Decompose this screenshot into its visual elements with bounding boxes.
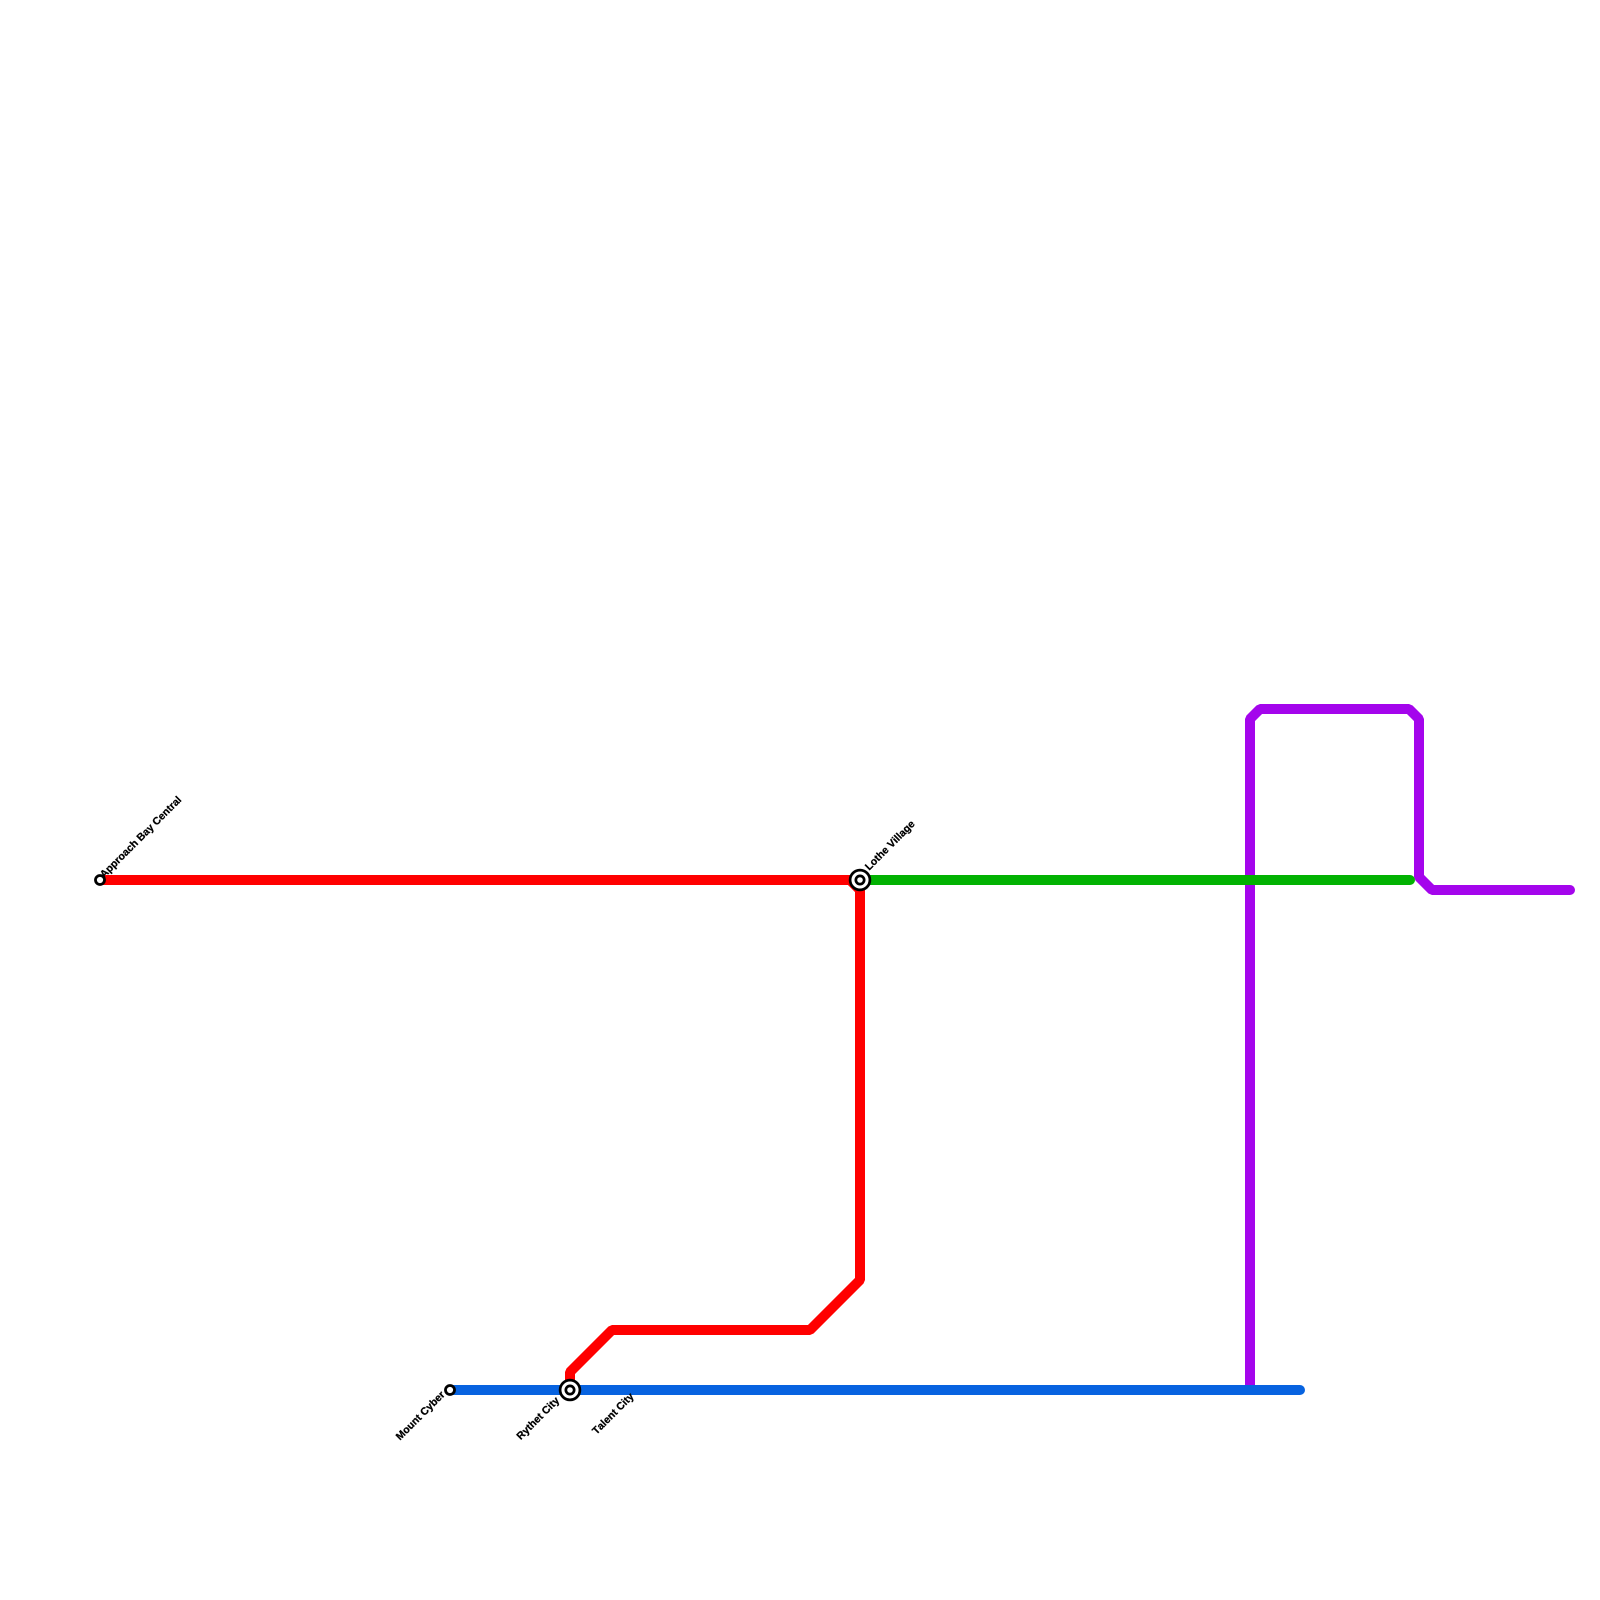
station Rythet City (interchange) inner ring (566, 1386, 574, 1394)
blue line (450, 1385, 1300, 1395)
label Mount Cyber (395, 1390, 447, 1442)
station Lothe Village (interchange) outer ring (850, 870, 870, 890)
label Approach Bay Central (99, 796, 183, 880)
green line (862, 875, 1410, 885)
station Mount Cyber (446, 1386, 455, 1395)
label Talent City (591, 1392, 636, 1437)
purple line: upper loop and right branch (1250, 709, 1570, 890)
purple line: segment below green line down to blue line (1245, 879, 1255, 1390)
label Rythet City (516, 1396, 562, 1442)
station Lothe Village (interchange) inner ring (856, 876, 864, 884)
station Approach Bay Central (96, 876, 105, 885)
red line (100, 880, 860, 1390)
label Lothe Village (864, 819, 916, 871)
station Rythet City (interchange) outer ring (560, 1380, 580, 1400)
